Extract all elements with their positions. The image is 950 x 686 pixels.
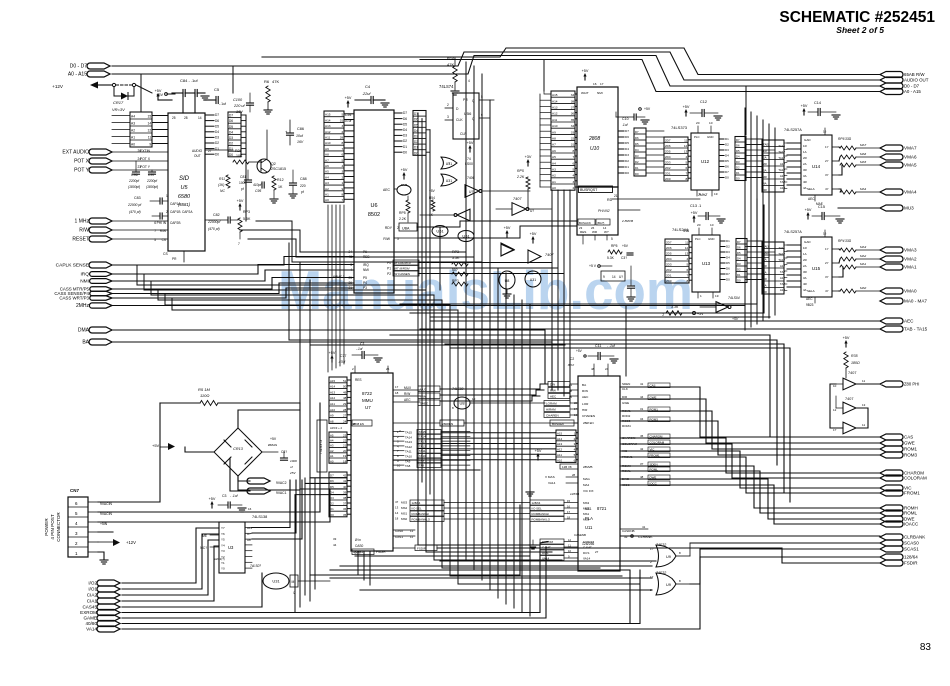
svg-text:11: 11 <box>862 379 865 383</box>
svg-text:13: 13 <box>395 506 399 510</box>
svg-text:9B23: 9B23 <box>806 303 814 307</box>
svg-text:VMA2: VMA2 <box>904 257 917 262</box>
svg-text:12: 12 <box>833 408 837 412</box>
svg-text:8722: 8722 <box>362 391 373 396</box>
svg-text:RP3: RP3 <box>243 210 250 214</box>
svg-text:D2: D2 <box>725 143 729 147</box>
svg-text:1R: 1R <box>803 246 807 250</box>
svg-text:11: 11 <box>685 241 688 245</box>
svg-text:1000: 1000 <box>290 459 297 463</box>
svg-text:D3: D3 <box>625 153 629 157</box>
svg-text:A6: A6 <box>325 164 329 168</box>
svg-text:2808 EN: 2808 EN <box>353 422 364 426</box>
svg-text:D5: D5 <box>737 251 741 255</box>
svg-text:3: 3 <box>341 124 343 128</box>
svg-text:D6: D6 <box>625 135 629 139</box>
svg-text:C3: C3 <box>222 494 227 498</box>
svg-text:50?: 50? <box>452 268 458 272</box>
svg-text:24: 24 <box>137 157 141 161</box>
svg-text:CAS0: CAS0 <box>395 529 403 533</box>
svg-text:5: 5 <box>611 237 613 241</box>
svg-text:40/80: 40/80 <box>353 551 361 555</box>
svg-text:DIR: DIR <box>622 395 628 399</box>
svg-text:74LS257A: 74LS257A <box>784 230 802 234</box>
svg-text:(1K): (1K) <box>218 183 224 187</box>
svg-text:2D5: 2D5 <box>665 150 671 154</box>
svg-text:A?: A? <box>247 532 251 536</box>
svg-text:HIR: HIR <box>582 408 588 412</box>
svg-text:Ø in: Ø in <box>355 538 361 542</box>
svg-text:11: 11 <box>568 544 571 548</box>
svg-text:+5V: +5V <box>530 232 537 236</box>
svg-text:A1: A1 <box>325 192 329 196</box>
svg-text:D7: D7 <box>625 129 629 133</box>
svg-text:D1: D1 <box>726 239 730 243</box>
svg-text:10: 10 <box>568 549 572 553</box>
svg-text:P1: P1 <box>387 267 391 271</box>
svg-text:(BA?): (BA?) <box>597 221 604 225</box>
svg-text:A15: A15 <box>330 379 336 383</box>
svg-text:1?: 1? <box>833 428 837 432</box>
svg-text:D5: D5 <box>625 141 629 145</box>
svg-text:11: 11 <box>410 535 413 539</box>
svg-text:MU3: MU3 <box>904 206 914 211</box>
svg-text:A12: A12 <box>330 396 336 400</box>
svg-text:A1?: A1? <box>780 288 786 292</box>
svg-text:28: 28 <box>343 408 347 412</box>
svg-text:SCAS1: SCAS1 <box>904 547 919 552</box>
svg-text:(470 pf): (470 pf) <box>129 210 141 214</box>
svg-text:25V: 25V <box>289 471 296 475</box>
svg-text:A8: A8 <box>325 153 329 157</box>
svg-text:A5: A5 <box>552 155 556 159</box>
svg-text:I/O SEL: I/O SEL <box>412 507 423 511</box>
svg-text:2Y: 2Y <box>825 261 829 265</box>
svg-text:ROMBANKHI: ROMBANKHI <box>412 512 430 516</box>
svg-text:A7: A7 <box>552 143 556 147</box>
svg-text:8: 8 <box>341 141 343 145</box>
svg-text:D0: D0 <box>215 152 219 156</box>
svg-text:1MHZ: 1MHZ <box>698 193 708 197</box>
svg-text:LOR: LOR <box>582 402 589 406</box>
svg-text:A4: A4 <box>330 438 334 442</box>
svg-text:1A: 1A <box>803 252 807 256</box>
svg-text:1R: 1R <box>763 149 767 153</box>
svg-text:AEC: AEC <box>550 395 557 399</box>
svg-text:GAD: GAD <box>804 138 811 142</box>
svg-text:D0: D0 <box>403 150 407 154</box>
svg-text:TA13: TA13 <box>419 440 426 444</box>
svg-text:P2: P2 <box>387 272 391 276</box>
svg-text:D2: D2 <box>403 139 407 143</box>
svg-text:2D7: 2D7 <box>665 139 671 143</box>
svg-text:D7: D7 <box>736 138 740 142</box>
svg-text:- .1uf: - .1uf <box>230 494 239 498</box>
svg-text:U31: U31 <box>530 278 536 282</box>
svg-text:D5: D5 <box>229 125 233 129</box>
svg-text:CS: CS <box>163 252 168 256</box>
svg-text:1Y: 1Y <box>825 247 829 251</box>
svg-text:SELA: SELA <box>807 187 815 191</box>
svg-text:A3: A3 <box>131 122 135 126</box>
svg-text:MA5: MA5 <box>860 160 867 164</box>
svg-text:180Ω: 180Ω <box>851 361 860 365</box>
svg-text:U9: U9 <box>666 555 671 559</box>
svg-text:C86: C86 <box>297 127 304 131</box>
svg-text:CAPLK SENSE: CAPLK SENSE <box>56 263 89 269</box>
svg-text:A8: A8 <box>247 538 251 542</box>
svg-text:3A: 3A <box>803 174 807 178</box>
svg-text:C2: C2 <box>570 357 574 361</box>
svg-text:ROML: ROML <box>650 468 659 472</box>
svg-text:3: 3 <box>447 115 449 119</box>
svg-text:4A: 4A <box>763 181 767 185</box>
svg-text:2A: 2A <box>763 155 767 159</box>
svg-text:D6: D6 <box>229 119 233 123</box>
svg-text:4R: 4R <box>803 282 807 286</box>
svg-text:48: 48 <box>343 396 347 400</box>
svg-text:1R: 1R <box>803 144 807 148</box>
svg-text:D4: D4 <box>635 148 639 152</box>
svg-text:V MAS: V MAS <box>545 475 555 479</box>
svg-text:A11: A11 <box>552 118 558 122</box>
svg-text:S1B: S1B <box>683 229 690 233</box>
svg-text:5.5K: 5.5K <box>452 256 460 260</box>
svg-text:47K: 47K <box>272 79 279 84</box>
svg-text:+5V: +5V <box>582 69 589 73</box>
svg-text:23: 23 <box>343 433 347 437</box>
svg-text:74LS257A: 74LS257A <box>784 128 802 132</box>
svg-text:14: 14 <box>148 122 152 126</box>
svg-text:3A: 3A <box>763 168 767 172</box>
svg-text:C5: C5 <box>214 87 220 92</box>
svg-text:51: 51 <box>343 379 347 383</box>
svg-text:2D4: 2D4 <box>666 257 672 261</box>
svg-text:A10: A10 <box>557 458 563 462</box>
svg-text:+5V: +5V <box>732 317 739 321</box>
svg-text:BUSAEK: BUSAEK <box>552 422 564 426</box>
svg-text:CIA1: CIA1 <box>87 599 98 604</box>
svg-text:2D1: 2D1 <box>666 274 672 278</box>
svg-text:10: 10 <box>833 384 837 388</box>
svg-text:D1: D1 <box>736 171 740 175</box>
svg-text:MUX: MUX <box>404 386 412 390</box>
svg-text:EXROM: EXROM <box>583 540 595 544</box>
svg-text:TA15: TA15 <box>405 431 412 435</box>
svg-text:13: 13 <box>684 150 688 154</box>
svg-text:220 uf: 220 uf <box>233 104 246 108</box>
svg-text:2: 2 <box>572 186 574 190</box>
svg-text:Y0: Y0 <box>221 567 225 571</box>
svg-text:IRQ: IRQ <box>80 272 89 278</box>
svg-text:SCHEMATIC #252451: SCHEMATIC #252451 <box>779 9 935 26</box>
svg-text:28MVB: 28MVB <box>583 465 593 469</box>
svg-text:CASENB: CASENB <box>574 533 586 537</box>
svg-text:I/O1: I/O1 <box>88 587 97 592</box>
svg-text:2D3: 2D3 <box>665 161 671 165</box>
svg-text:U5: U5 <box>180 185 188 191</box>
svg-text:2: 2 <box>166 210 168 214</box>
svg-text:5.3K: 5.3K <box>607 256 615 260</box>
svg-text:-.1uf: -.1uf <box>356 347 363 351</box>
svg-text:D3: D3 <box>215 136 219 140</box>
svg-text:D0: D0 <box>726 278 730 282</box>
svg-text:3: 3 <box>572 180 574 184</box>
svg-text:+5V: +5V <box>429 189 436 193</box>
svg-text:17: 17 <box>567 510 571 514</box>
svg-text:D2: D2 <box>726 245 730 249</box>
svg-text:C97: C97 <box>148 173 155 177</box>
svg-text:ØMAS: ØMAS <box>267 443 278 447</box>
svg-text:VIC: VIC <box>650 448 655 452</box>
svg-text:CONNECTOR: CONNECTOR <box>56 512 61 542</box>
svg-text:A1?: A1? <box>780 186 786 190</box>
svg-text:29: 29 <box>343 402 347 406</box>
svg-text:D7: D7 <box>737 240 741 244</box>
svg-text:74LS0?: 74LS0? <box>250 564 261 568</box>
svg-text:4Y: 4Y <box>825 187 829 191</box>
svg-text:4Y: 4Y <box>825 289 829 293</box>
svg-text:A3: A3 <box>325 181 329 185</box>
svg-text:MA3: MA3 <box>860 245 867 249</box>
svg-text:R16: R16 <box>447 56 455 61</box>
svg-text:+5V: +5V <box>467 141 474 145</box>
svg-text:A8: A8 <box>552 136 556 140</box>
svg-text:41: 41 <box>640 382 644 386</box>
svg-text:17: 17 <box>600 82 604 86</box>
svg-text:C3?: C3? <box>621 256 627 260</box>
svg-text:2A: 2A <box>803 264 807 268</box>
svg-text:P4: P4 <box>363 281 367 285</box>
svg-text:18: 18 <box>395 517 399 521</box>
svg-text:C10: C10 <box>622 117 629 121</box>
svg-text:9VAC1: 9VAC1 <box>276 491 287 495</box>
svg-text:BUSRQST: BUSRQST <box>580 188 598 192</box>
svg-text:DIN: DIN <box>550 383 555 387</box>
svg-text:8502: 8502 <box>368 212 380 218</box>
svg-text:D7: D7 <box>229 114 233 118</box>
svg-text:TA11: TA11 <box>405 450 412 454</box>
svg-text:34: 34 <box>571 124 575 128</box>
svg-text:D4: D4 <box>625 147 629 151</box>
svg-text:R5 1M: R5 1M <box>198 387 210 392</box>
svg-text:U13: U13 <box>702 261 711 266</box>
svg-text:26: 26 <box>591 226 595 230</box>
svg-text:2SC1815: 2SC1815 <box>271 167 286 171</box>
svg-text:14: 14 <box>603 226 607 230</box>
svg-text:D0: D0 <box>625 171 629 175</box>
svg-text:D4: D4 <box>737 257 741 261</box>
svg-text:TA?: TA? <box>780 270 785 274</box>
svg-text:4: 4 <box>341 164 343 168</box>
svg-text:6: 6 <box>341 153 343 157</box>
svg-text:C11: C11 <box>595 344 601 348</box>
svg-text:OUT: OUT <box>194 154 201 158</box>
svg-text:21: 21 <box>343 444 347 448</box>
svg-text:AUDIO OUT: AUDIO OUT <box>904 78 929 83</box>
svg-text:POT Y: POT Y <box>74 168 89 174</box>
svg-text:20: 20 <box>343 449 347 453</box>
svg-text:TA14: TA14 <box>405 435 412 439</box>
svg-text:SAEZ: SAEZ <box>420 402 428 406</box>
svg-text:18: 18 <box>395 391 399 395</box>
svg-text:D7: D7 <box>635 130 639 134</box>
svg-text:D4: D4 <box>725 154 729 158</box>
svg-text:EXROM: EXROM <box>80 610 97 615</box>
svg-text:Y3: Y3 <box>221 549 225 553</box>
svg-text:IOACC: IOACC <box>904 522 919 527</box>
svg-text:17: 17 <box>395 385 399 389</box>
svg-text:A7: A7 <box>325 158 329 162</box>
svg-text:CHAROM: CHAROM <box>650 435 663 439</box>
svg-text:RP5: RP5 <box>517 169 524 173</box>
svg-text:2D1: 2D1 <box>665 172 671 176</box>
svg-text:CHAREN: CHAREN <box>546 414 559 418</box>
svg-text:AEC: AEC <box>904 319 914 324</box>
svg-text:6: 6 <box>572 161 574 165</box>
svg-text:TA11: TA11 <box>419 449 426 453</box>
svg-text:A2: A2 <box>330 449 334 453</box>
svg-text:36: 36 <box>343 507 347 511</box>
svg-text:+12V: +12V <box>52 84 64 89</box>
svg-text:BUSACK: BUSACK <box>579 221 591 225</box>
svg-text:Y1: Y1 <box>221 561 225 565</box>
svg-text:2D4: 2D4 <box>665 155 671 159</box>
svg-text:A12: A12 <box>325 130 331 134</box>
svg-text:9VACIN: 9VACIN <box>100 512 113 516</box>
svg-text:2D6: 2D6 <box>665 144 671 148</box>
svg-text:34: 34 <box>571 93 575 97</box>
svg-text:A5: A5 <box>330 433 334 437</box>
svg-text:U9: U9 <box>666 583 671 587</box>
svg-text:2: 2 <box>341 175 343 179</box>
svg-text:A3: A3 <box>552 167 556 171</box>
svg-text:D6: D6 <box>635 136 639 140</box>
svg-text:U8: U8 <box>505 279 510 283</box>
svg-text:18: 18 <box>567 516 571 520</box>
svg-text:38: 38 <box>343 496 347 500</box>
svg-text:2R: 2R <box>763 162 767 166</box>
svg-text:AEC: AEC <box>806 297 813 301</box>
svg-text:D2: D2 <box>625 159 629 163</box>
svg-text:NMI: NMI <box>597 91 603 95</box>
svg-text:PHI IN2: PHI IN2 <box>598 209 610 213</box>
svg-text:47K: 47K <box>447 62 454 67</box>
svg-text:7: 7 <box>572 155 574 159</box>
svg-text:pf: pf <box>241 187 244 191</box>
svg-text:TA14: TA14 <box>419 435 426 439</box>
svg-text:1: 1 <box>166 194 168 198</box>
svg-text:D2: D2 <box>736 166 740 170</box>
svg-text:33Ω: 33Ω <box>845 137 852 141</box>
svg-text:+5V: +5V <box>843 336 850 340</box>
svg-text:2D3: 2D3 <box>666 263 672 267</box>
svg-text:MS2: MS2 <box>583 507 590 511</box>
svg-text:R35: R35 <box>851 354 858 358</box>
svg-text:VIC FIX: VIC FIX <box>583 489 594 493</box>
svg-text:D5: D5 <box>330 485 334 489</box>
svg-text:ME: ME <box>202 534 207 538</box>
svg-text:D2: D2 <box>215 141 219 145</box>
svg-text:4: 4 <box>572 174 574 178</box>
svg-text:DWE: DWE <box>650 476 657 480</box>
svg-text:VA14: VA14 <box>86 627 97 632</box>
svg-text:D3: D3 <box>403 134 407 138</box>
svg-text:SID: SID <box>179 176 190 182</box>
svg-text:U15: U15 <box>812 266 821 271</box>
svg-text:A1: A1 <box>131 136 135 140</box>
svg-text:38: 38 <box>571 99 575 103</box>
svg-text:2MHz: 2MHz <box>76 303 90 309</box>
svg-text:83: 83 <box>920 642 932 653</box>
svg-text:14: 14 <box>198 116 202 120</box>
svg-text:MMU: MMU <box>362 398 373 403</box>
svg-text:2D6: 2D6 <box>666 246 672 250</box>
svg-text:A15/3 + 2: A15/3 + 2 <box>330 426 342 430</box>
svg-text:SCAS0: SCAS0 <box>904 541 919 546</box>
svg-text:(1800pf): (1800pf) <box>146 185 158 189</box>
svg-text:LORAM: LORAM <box>546 402 557 406</box>
svg-text:37: 37 <box>571 105 575 109</box>
svg-text:D7: D7 <box>725 170 729 174</box>
svg-text:R/W: R/W <box>383 237 390 241</box>
svg-text:16: 16 <box>593 82 597 86</box>
svg-text:7407: 7407 <box>848 371 856 375</box>
svg-text:1 MHz: 1 MHz <box>75 219 90 225</box>
svg-text:D6: D6 <box>330 479 334 483</box>
svg-text:8: 8 <box>572 149 574 153</box>
svg-text:FROM1: FROM1 <box>904 491 920 496</box>
svg-text:D6: D6 <box>736 144 740 148</box>
svg-text:10uf: 10uf <box>296 134 304 138</box>
svg-text:- .1uf: - .1uf <box>607 344 616 348</box>
svg-text:1000: 1000 <box>239 181 247 185</box>
svg-text:U31: U31 <box>446 179 452 183</box>
svg-text:7: 7 <box>341 147 343 151</box>
svg-text:33: 33 <box>571 130 575 134</box>
svg-text:D3: D3 <box>736 160 740 164</box>
svg-text:MC?: MC? <box>200 546 207 550</box>
svg-text:16: 16 <box>567 505 571 509</box>
svg-text:A6: A6 <box>552 149 556 153</box>
svg-text:ROM1: ROM1 <box>650 408 659 412</box>
svg-text:5: 5 <box>341 113 343 117</box>
svg-text:11: 11 <box>148 136 152 140</box>
svg-text:1Y: 1Y <box>825 145 829 149</box>
svg-text:23: 23 <box>137 165 141 169</box>
svg-text:39: 39 <box>343 490 347 494</box>
svg-text:33Ω: 33Ω <box>845 239 852 243</box>
svg-text:A0 - A15: A0 - A15 <box>68 72 87 78</box>
svg-text:RP5: RP5 <box>611 244 618 248</box>
svg-text:Z80 PHI: Z80 PHI <box>904 382 919 387</box>
svg-text:IOCC: IOCC <box>650 482 657 486</box>
svg-text:Sheet 2 of 5: Sheet 2 of 5 <box>836 25 884 35</box>
svg-text:24: 24 <box>343 419 347 423</box>
svg-text:+5V: +5V <box>691 211 698 215</box>
svg-text:D3: D3 <box>229 136 233 140</box>
svg-text:40/80: 40/80 <box>86 621 98 626</box>
svg-text:U?: U? <box>619 275 623 279</box>
svg-text:D5: D5 <box>635 142 639 146</box>
svg-text:AEC: AEC <box>404 398 411 402</box>
svg-text:MAG: MAG <box>583 477 591 481</box>
svg-text:POT X: POT X <box>74 159 90 165</box>
svg-text:C94: C94 <box>345 113 351 117</box>
svg-text:R/W: R/W <box>420 395 426 399</box>
svg-text:5: 5 <box>341 158 343 162</box>
svg-text:A14: A14 <box>557 437 563 441</box>
